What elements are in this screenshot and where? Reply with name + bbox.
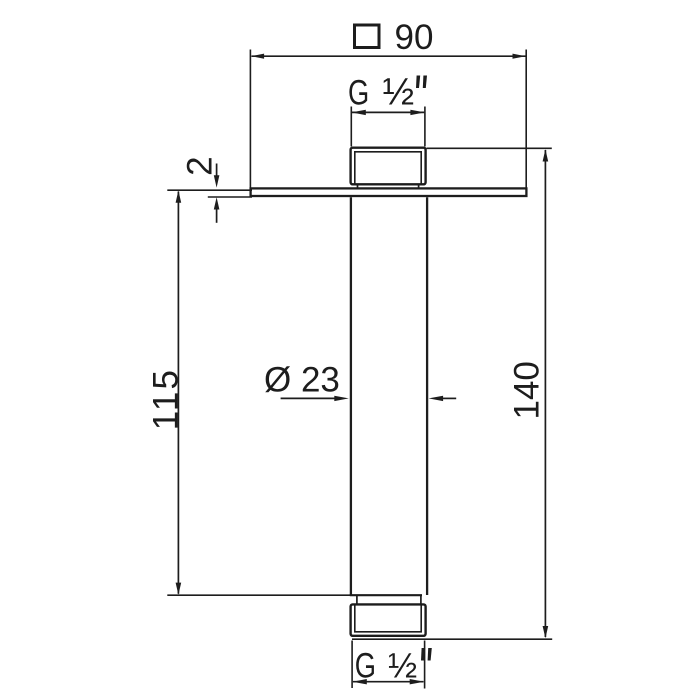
svg-text:G: G: [348, 73, 369, 112]
svg-text:½: ½: [383, 72, 415, 114]
svg-text:90: 90: [395, 18, 434, 57]
svg-text:½: ½: [388, 646, 417, 685]
svg-text:G: G: [355, 646, 376, 685]
svg-text:115: 115: [146, 368, 185, 430]
svg-text:Ø 23: Ø 23: [264, 360, 340, 399]
svg-text:140: 140: [508, 361, 547, 419]
svg-text:2: 2: [181, 156, 220, 175]
